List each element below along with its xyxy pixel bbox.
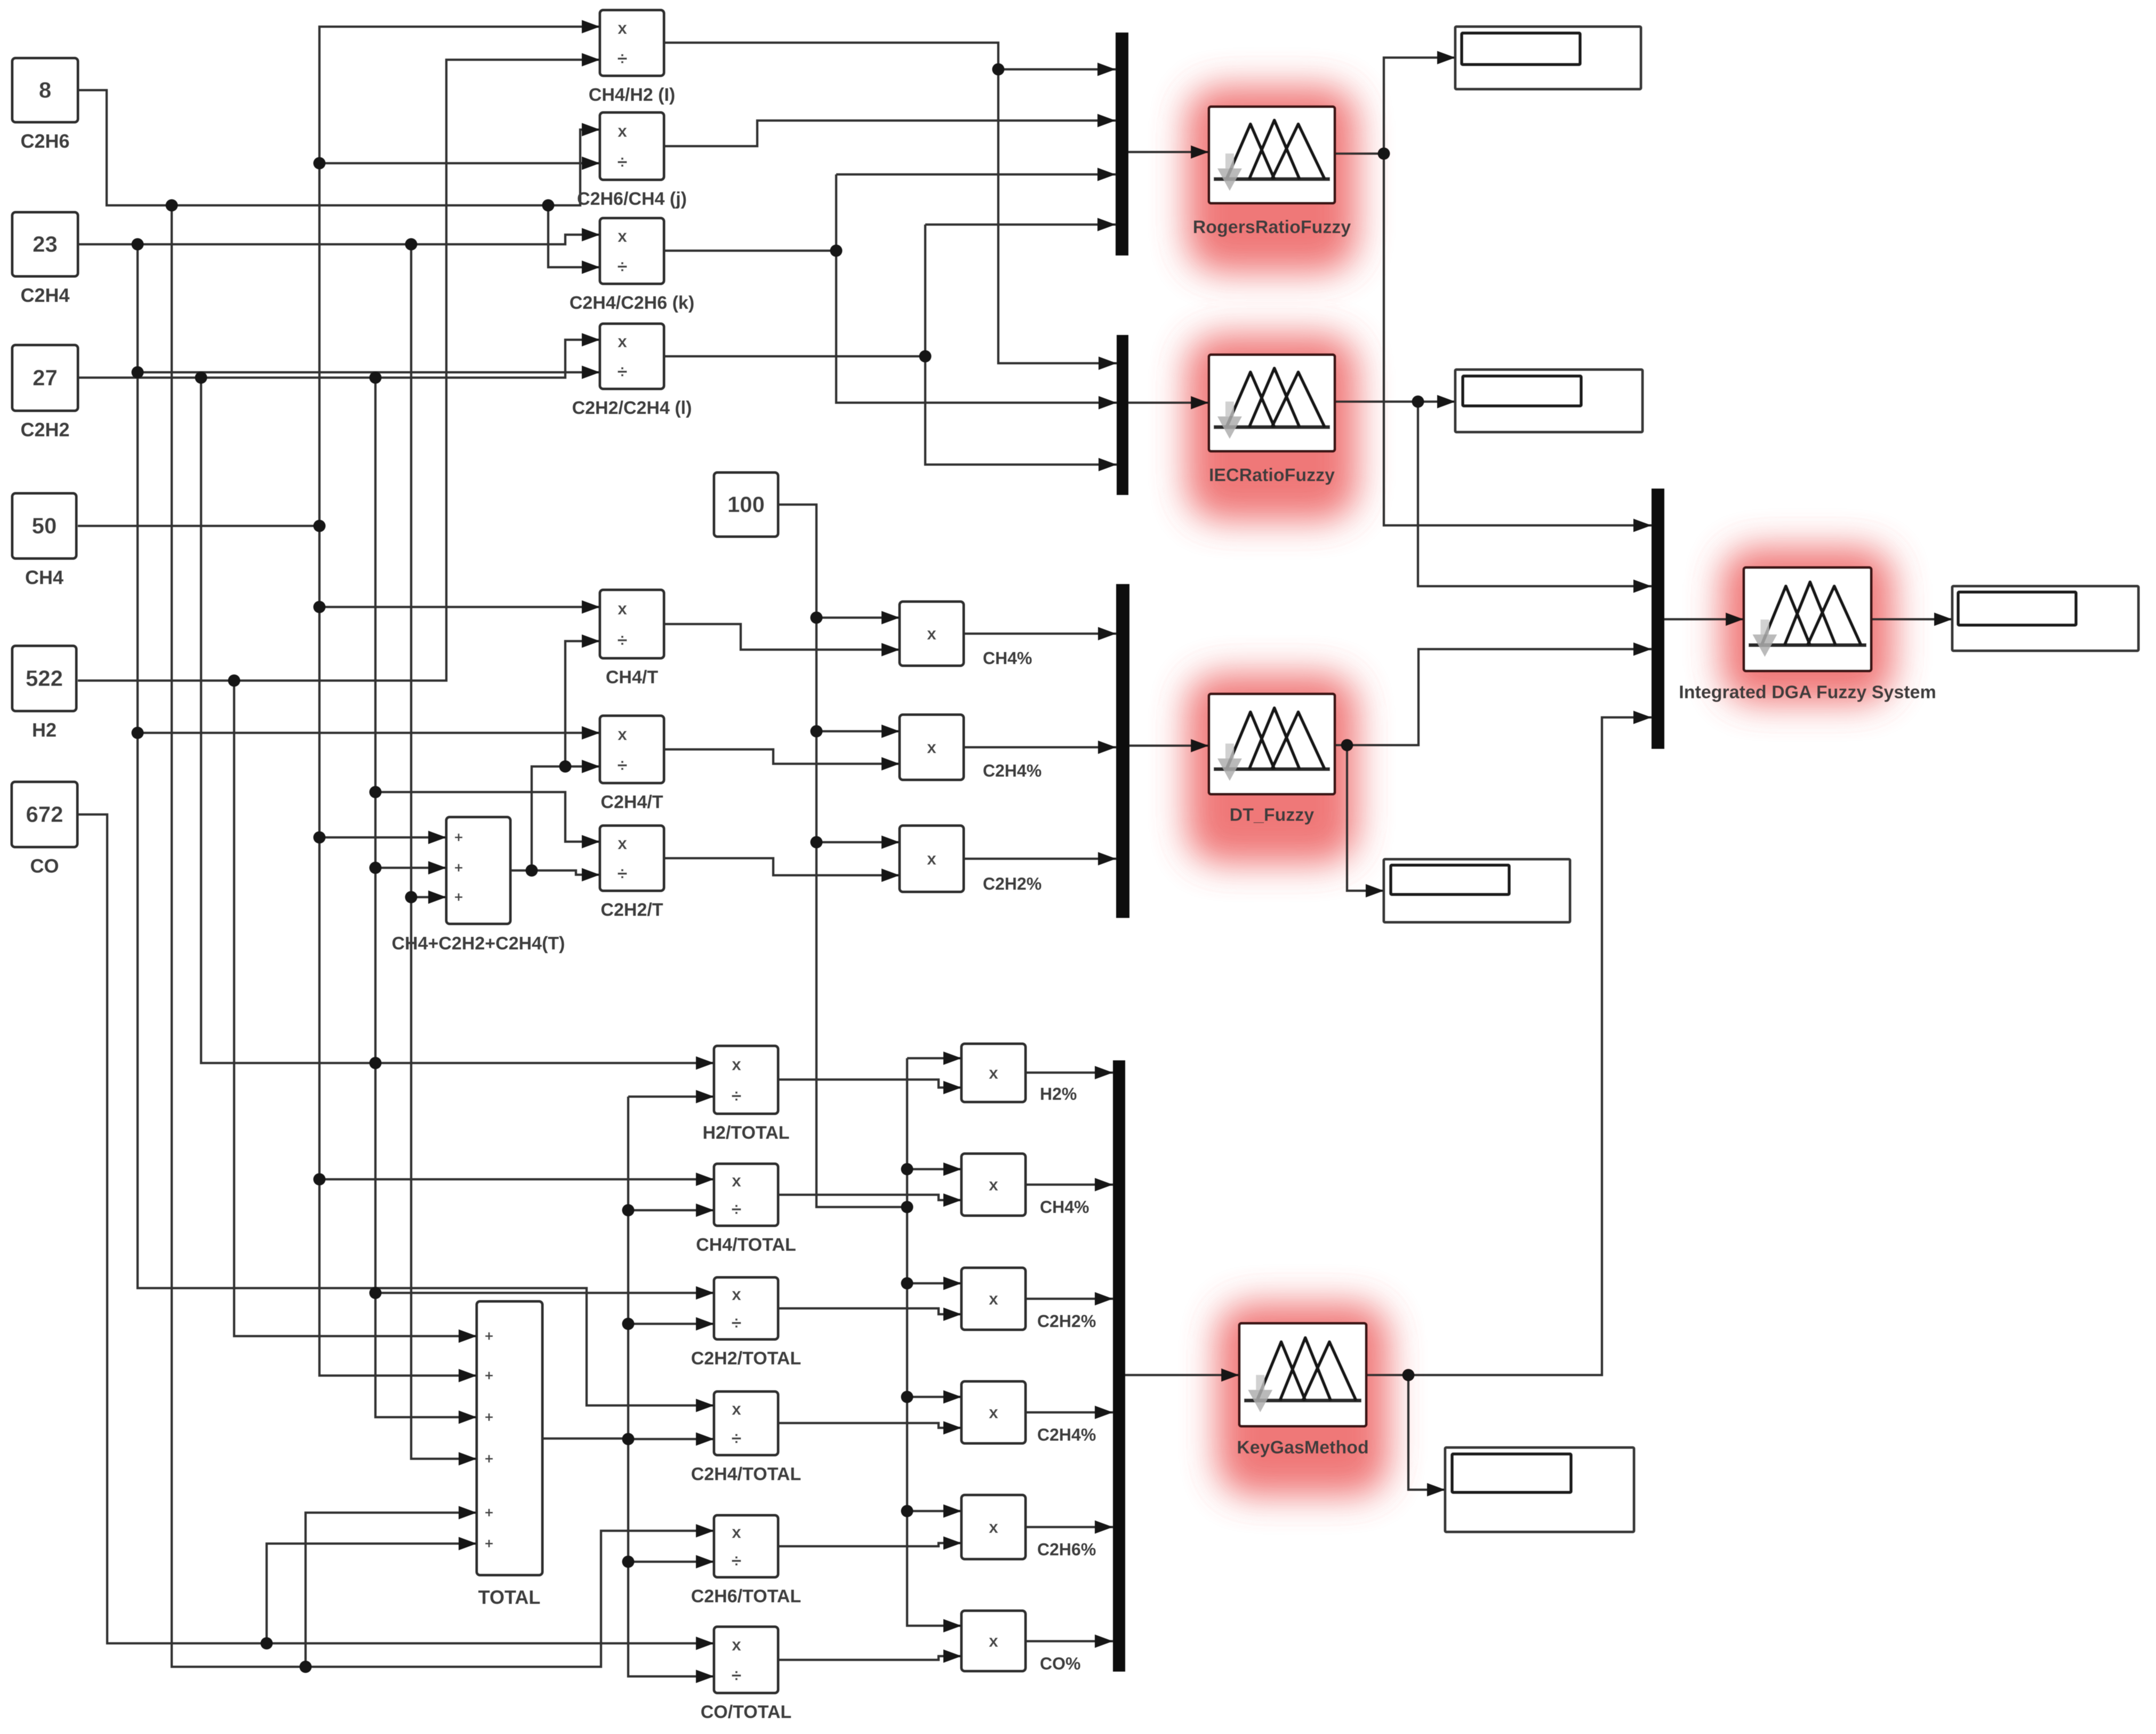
svg-text:x: x (732, 1055, 741, 1074)
svg-text:C2H4: C2H4 (20, 284, 69, 306)
svg-text:C2H2/T: C2H2/T (600, 900, 663, 920)
svg-text:C2H6: C2H6 (20, 130, 69, 152)
svg-text:÷: ÷ (618, 257, 628, 277)
svg-text:+: + (485, 1328, 493, 1344)
svg-text:x: x (618, 226, 627, 245)
svg-text:x: x (927, 849, 936, 868)
svg-text:÷: ÷ (618, 362, 628, 382)
svg-text:+: + (454, 829, 463, 845)
svg-text:C2H6/TOTAL: C2H6/TOTAL (691, 1586, 802, 1607)
svg-text:RogersRatioFuzzy: RogersRatioFuzzy (1193, 217, 1351, 237)
svg-text:x: x (732, 1522, 741, 1541)
svg-text:x: x (618, 724, 627, 744)
svg-text:x: x (732, 1399, 741, 1418)
svg-text:H2/TOTAL: H2/TOTAL (702, 1123, 789, 1143)
svg-text:x: x (989, 1289, 998, 1308)
svg-text:x: x (989, 1175, 998, 1194)
svg-text:÷: ÷ (618, 153, 628, 173)
svg-text:CO/TOTAL: CO/TOTAL (701, 1702, 792, 1722)
svg-text:TOTAL: TOTAL (478, 1586, 541, 1608)
svg-text:+: + (485, 1450, 493, 1467)
svg-text:+: + (485, 1504, 493, 1521)
svg-text:8: 8 (39, 77, 51, 102)
svg-text:C2H6/CH4 (j): C2H6/CH4 (j) (577, 189, 687, 209)
svg-text:÷: ÷ (618, 756, 628, 776)
svg-text:x: x (989, 1632, 998, 1651)
svg-text:672: 672 (26, 802, 63, 827)
svg-text:x: x (989, 1064, 998, 1083)
svg-text:x: x (927, 738, 936, 757)
svg-text:CH4/T: CH4/T (606, 667, 658, 688)
svg-text:CO%: CO% (1040, 1654, 1080, 1673)
svg-text:50: 50 (32, 513, 57, 538)
svg-text:CH4/TOTAL: CH4/TOTAL (696, 1235, 796, 1255)
svg-text:x: x (732, 1635, 741, 1655)
svg-text:+: + (485, 1367, 493, 1384)
svg-text:522: 522 (26, 666, 63, 691)
svg-text:CO: CO (30, 855, 59, 877)
svg-text:C2H4/C2H6 (k): C2H4/C2H6 (k) (570, 293, 694, 313)
svg-text:Integrated DGA Fuzzy System: Integrated DGA Fuzzy System (1679, 682, 1936, 702)
svg-text:÷: ÷ (732, 1313, 742, 1333)
svg-text:+: + (454, 859, 463, 876)
svg-text:C2H6%: C2H6% (1037, 1540, 1096, 1559)
svg-text:x: x (927, 624, 936, 643)
svg-text:x: x (732, 1171, 741, 1190)
svg-text:CH4%: CH4% (983, 649, 1032, 668)
svg-text:100: 100 (727, 492, 765, 517)
svg-text:x: x (618, 834, 627, 853)
svg-text:÷: ÷ (732, 1200, 742, 1220)
svg-text:C2H4%: C2H4% (983, 761, 1041, 780)
svg-text:x: x (989, 1517, 998, 1537)
svg-text:C2H4%: C2H4% (1037, 1425, 1096, 1444)
svg-text:x: x (989, 1403, 998, 1422)
svg-text:+: + (485, 1409, 493, 1425)
svg-text:÷: ÷ (732, 1551, 742, 1571)
svg-text:C2H4/T: C2H4/T (600, 792, 663, 812)
svg-text:÷: ÷ (618, 49, 628, 69)
svg-text:C2H2%: C2H2% (983, 874, 1041, 893)
svg-text:x: x (732, 1284, 741, 1304)
svg-text:C2H2/C2H4 (l): C2H2/C2H4 (l) (572, 398, 692, 418)
svg-text:CH4: CH4 (25, 566, 63, 588)
svg-text:C2H2/TOTAL: C2H2/TOTAL (691, 1348, 802, 1369)
svg-text:IECRatioFuzzy: IECRatioFuzzy (1209, 465, 1335, 485)
svg-text:+: + (454, 889, 463, 905)
svg-text:÷: ÷ (732, 1428, 742, 1449)
svg-text:C2H2%: C2H2% (1037, 1312, 1096, 1331)
svg-text:CH4/H2 (I): CH4/H2 (I) (589, 85, 675, 105)
svg-text:C2H4/TOTAL: C2H4/TOTAL (691, 1464, 802, 1484)
svg-text:C2H2: C2H2 (20, 419, 69, 441)
svg-text:23: 23 (33, 231, 58, 257)
svg-text:DT_Fuzzy: DT_Fuzzy (1230, 805, 1315, 825)
svg-text:CH4%: CH4% (1040, 1197, 1089, 1217)
svg-text:KeyGasMethod: KeyGasMethod (1237, 1437, 1369, 1458)
svg-text:CH4+C2H2+C2H4(T): CH4+C2H2+C2H4(T) (392, 933, 565, 954)
svg-text:÷: ÷ (732, 1666, 742, 1686)
svg-text:x: x (618, 599, 627, 618)
svg-text:27: 27 (33, 365, 58, 390)
svg-text:x: x (618, 332, 627, 351)
svg-text:÷: ÷ (618, 864, 628, 884)
svg-text:H2: H2 (32, 719, 57, 741)
svg-text:x: x (618, 18, 627, 37)
svg-text:÷: ÷ (618, 630, 628, 651)
svg-text:÷: ÷ (732, 1086, 742, 1106)
svg-text:x: x (618, 121, 627, 140)
svg-text:+: + (485, 1535, 493, 1552)
svg-text:H2%: H2% (1040, 1084, 1077, 1104)
